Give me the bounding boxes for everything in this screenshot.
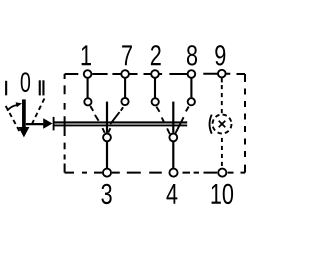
lamp dashed circle bbox=[213, 115, 232, 134]
fixed contact circle 2 bbox=[152, 98, 159, 105]
label position I bbox=[5, 81, 7, 96]
terminal 3 label bbox=[101, 184, 111, 204]
fixed contact circle 8 bbox=[188, 98, 195, 105]
moving contact stem 3 bbox=[106, 102, 108, 133]
contact arm pole A right (to contact 7) dashes bbox=[108, 107, 123, 132]
terminal 2 label bbox=[151, 45, 161, 65]
dashed wire lamp to terminal 10 bbox=[221, 138, 223, 167]
lever shaft arrow bbox=[22, 99, 26, 128]
terminal 2 circle bbox=[151, 70, 159, 78]
wire terminal 1 to fixed contact bbox=[87, 78, 89, 98]
moving contact circle pole B bbox=[169, 134, 177, 142]
wire terminal 8 to fixed contact bbox=[190, 78, 192, 98]
wire terminal 7 to fixed contact bbox=[124, 78, 126, 98]
moving contact stem 4 bbox=[172, 102, 174, 133]
terminal 10 label bbox=[212, 184, 221, 204]
switch body dashed outline right side bbox=[244, 74, 246, 173]
wire terminal 2 to fixed contact bbox=[154, 78, 156, 98]
terminal 4 circle bbox=[169, 169, 177, 177]
actuator bar double line bbox=[54, 122, 187, 125]
coupler stop tick bbox=[53, 117, 55, 130]
terminal 10 circle bbox=[218, 169, 226, 177]
moving contact circle pole A bbox=[103, 134, 111, 142]
terminal 7 label bbox=[122, 45, 132, 65]
terminal 1 label bbox=[82, 45, 91, 65]
coupler arrowhead bbox=[43, 118, 52, 129]
terminal 1 circle bbox=[84, 70, 92, 78]
terminal 9 label bbox=[215, 45, 225, 65]
terminal 4 label bbox=[166, 184, 177, 204]
fixed contact circle 7 bbox=[121, 98, 128, 105]
switch body dashed outline left side bbox=[64, 74, 66, 173]
lamp cross bbox=[219, 121, 226, 128]
contact arm pole B left (to contact 2) dashes bbox=[156, 107, 169, 134]
lamp left parenthesis bbox=[210, 115, 212, 134]
terminal 3 circle bbox=[103, 169, 111, 177]
wire stub terminal 9 down bbox=[221, 78, 223, 83]
label position 0 bbox=[21, 72, 30, 92]
contact arm pole A left (to contact 1) dashes bbox=[90, 106, 104, 133]
dashed wire 9 to lamp bbox=[221, 85, 223, 113]
actuation direction arrow bbox=[7, 105, 17, 111]
terminal 9 circle bbox=[218, 70, 226, 78]
terminal 7 circle bbox=[121, 70, 129, 78]
terminal 8 label bbox=[187, 45, 197, 65]
switch body dashed outline bottom side bbox=[65, 172, 245, 174]
lever position II dashed leg bbox=[32, 99, 45, 125]
lever position I dashed leg bbox=[6, 106, 21, 134]
contact arm pole B right (to contact 8) bbox=[176, 107, 189, 134]
label position II bbox=[39, 80, 41, 95]
fixed contact circle 1 bbox=[84, 98, 91, 105]
switch body dashed outline top side bbox=[65, 73, 245, 75]
terminal 8 circle bbox=[188, 70, 196, 78]
coupler link line bbox=[26, 123, 44, 125]
